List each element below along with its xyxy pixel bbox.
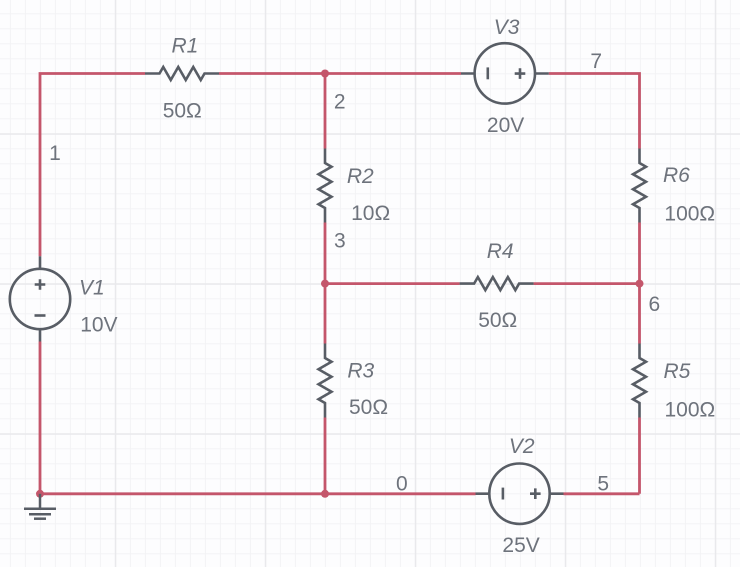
- svg-text:100Ω: 100Ω: [664, 203, 715, 226]
- svg-text:20V: 20V: [487, 114, 524, 137]
- svg-text:50Ω: 50Ω: [349, 396, 388, 419]
- svg-text:V3: V3: [494, 16, 520, 39]
- svg-text:5: 5: [597, 472, 609, 495]
- svg-text:R4: R4: [487, 240, 514, 263]
- svg-text:2: 2: [334, 91, 346, 114]
- svg-text:50Ω: 50Ω: [478, 309, 517, 332]
- svg-text:R1: R1: [172, 35, 199, 58]
- svg-text:0: 0: [396, 472, 408, 495]
- svg-text:V2: V2: [509, 435, 535, 458]
- svg-text:6: 6: [649, 293, 661, 316]
- svg-text:R3: R3: [347, 360, 374, 383]
- svg-text:R2: R2: [347, 165, 374, 188]
- svg-text:7: 7: [590, 50, 602, 73]
- svg-text:R6: R6: [663, 164, 690, 187]
- svg-text:V1: V1: [79, 276, 105, 299]
- svg-text:50Ω: 50Ω: [163, 100, 202, 123]
- svg-text:10V: 10V: [80, 314, 117, 337]
- svg-text:1: 1: [49, 142, 61, 165]
- svg-text:25V: 25V: [502, 534, 539, 557]
- svg-text:100Ω: 100Ω: [665, 399, 716, 422]
- svg-text:10Ω: 10Ω: [351, 202, 390, 225]
- svg-text:3: 3: [334, 230, 346, 253]
- svg-text:R5: R5: [664, 360, 691, 383]
